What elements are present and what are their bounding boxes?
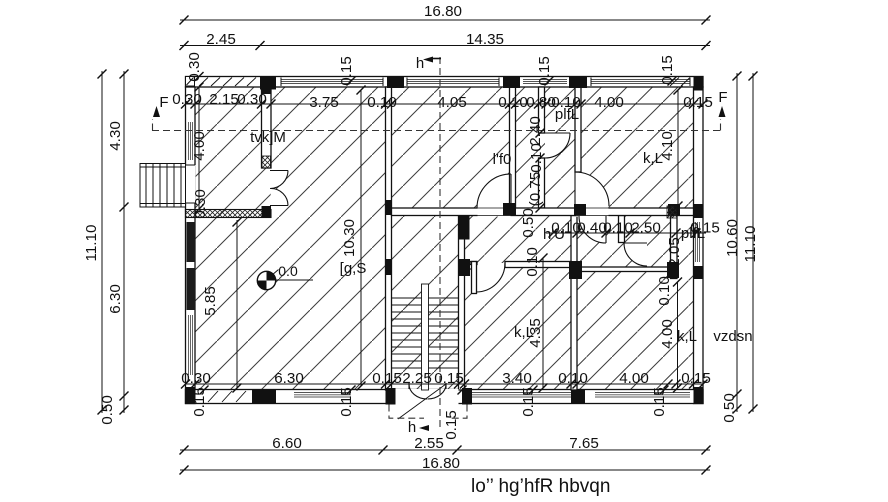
svg-text:0.50: 0.50 [721, 393, 738, 423]
svg-text:6.30: 6.30 [274, 370, 304, 387]
svg-text:0.15: 0.15 [520, 387, 537, 417]
svg-text:h'U: h'U [543, 226, 565, 243]
svg-text:0.15: 0.15 [683, 94, 713, 111]
svg-text:0.15: 0.15 [651, 387, 668, 417]
svg-text:0.10: 0.10 [367, 94, 397, 111]
svg-text:0.15: 0.15 [659, 55, 676, 85]
svg-text:2.55: 2.55 [414, 435, 444, 452]
svg-text:0.15: 0.15 [536, 56, 553, 86]
svg-text:0.0: 0.0 [278, 263, 298, 279]
svg-text:0.10: 0.10 [558, 370, 588, 387]
svg-text:0.30: 0.30 [192, 189, 209, 219]
svg-text:14.35: 14.35 [466, 31, 504, 48]
svg-text:vzdsn: vzdsn [713, 328, 752, 345]
svg-text:2.15: 2.15 [209, 91, 239, 108]
svg-text:7.65: 7.65 [569, 435, 599, 452]
svg-text:0.15: 0.15 [191, 387, 208, 417]
svg-text:lo’’ hg’hfR hbvqn: lo’’ hg’hfR hbvqn [471, 476, 610, 497]
svg-text:0.10: 0.10 [528, 143, 545, 173]
svg-text:tvk]M: tvk]M [250, 129, 286, 146]
svg-text:2.25: 2.25 [402, 370, 432, 387]
svg-text:0.30: 0.30 [181, 370, 211, 387]
svg-text:0.15: 0.15 [434, 370, 464, 387]
svg-text:F: F [718, 89, 727, 106]
svg-text:(0.75: (0.75 [527, 172, 544, 207]
svg-text:0.15: 0.15 [372, 370, 402, 387]
svg-text:plfL: plfL [681, 225, 705, 242]
svg-text:4.00: 4.00 [659, 319, 676, 349]
svg-text:0.15: 0.15 [338, 56, 355, 86]
svg-text:2.40: 2.40 [527, 116, 544, 146]
svg-text:6.60: 6.60 [272, 435, 302, 452]
svg-text:0.15: 0.15 [681, 370, 711, 387]
svg-text:11.10: 11.10 [742, 226, 759, 263]
svg-text:0.10: 0.10 [656, 276, 673, 306]
svg-text:0.10: 0.10 [603, 220, 633, 237]
svg-text:0.50: 0.50 [520, 208, 537, 238]
svg-text:4.00: 4.00 [619, 370, 649, 387]
svg-text:3.75: 3.75 [309, 94, 339, 111]
svg-text:k,L: k,L [643, 150, 663, 167]
svg-text:k,L: k,L [677, 328, 697, 345]
svg-text:0.15: 0.15 [338, 387, 355, 417]
svg-text:5.85: 5.85 [202, 286, 219, 316]
svg-text:k,L: k,L [514, 324, 534, 341]
svg-text:10.30: 10.30 [341, 219, 358, 257]
svg-text:[g,S: [g,S [340, 260, 367, 277]
svg-text:11.10: 11.10 [83, 225, 100, 262]
svg-text:plfL: plfL [555, 106, 579, 123]
svg-text:2.50: 2.50 [631, 220, 661, 237]
svg-text:6.30: 6.30 [107, 284, 124, 314]
svg-text:0.30: 0.30 [186, 52, 203, 82]
svg-text:3.40: 3.40 [502, 370, 532, 387]
svg-text:4.00: 4.00 [191, 131, 208, 161]
svg-text:0.30: 0.30 [172, 91, 202, 108]
svg-text:4.30: 4.30 [107, 121, 124, 151]
svg-text:10.60: 10.60 [724, 219, 741, 257]
svg-text:h: h [416, 55, 424, 72]
svg-text:2.45: 2.45 [206, 31, 236, 48]
svg-text:4.00: 4.00 [594, 94, 624, 111]
svg-text:l'f0: l'f0 [493, 151, 512, 168]
svg-text:0.10: 0.10 [524, 247, 541, 277]
svg-text:h: h [408, 419, 416, 436]
svg-text:0.15: 0.15 [443, 410, 460, 440]
svg-text:0.30: 0.30 [237, 91, 267, 108]
svg-text:16.80: 16.80 [424, 3, 462, 20]
svg-text:0.50: 0.50 [99, 395, 116, 425]
svg-text:0.10: 0.10 [498, 94, 528, 111]
svg-text:F: F [159, 94, 168, 111]
svg-text:4.05: 4.05 [437, 94, 467, 111]
svg-text:16.80: 16.80 [422, 455, 460, 472]
